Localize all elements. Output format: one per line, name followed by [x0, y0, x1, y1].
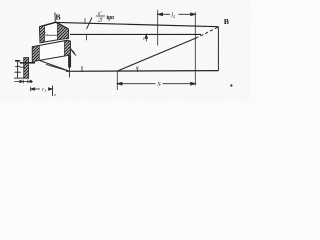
- leader line to slope formula: [87, 18, 93, 30]
- thin vertical hatched bar (lower left): [24, 58, 29, 79]
- extension line left of l2 / t: [157, 10, 159, 46]
- block 2 left hatched end: [32, 46, 39, 62]
- vertical line continuation: [69, 68, 71, 78]
- line B (horizontal reference line): [70, 33, 201, 35]
- stray dot: [230, 84, 232, 86]
- block 2 right hatched end: [65, 41, 71, 56]
- dimension r1 (bottom): [31, 87, 53, 92]
- base bottom line: [66, 70, 219, 73]
- tick below line B: [86, 34, 88, 40]
- r1 right extension line: [52, 86, 54, 97]
- block 1 left hatched end: [40, 26, 45, 43]
- dimension t arrow: [145, 34, 147, 41]
- scan noise: [0, 0, 1, 1]
- wedge hypotenuse dashed extension: [196, 27, 219, 38]
- S left extension line: [116, 71, 118, 90]
- wedge right edge: [217, 27, 219, 71]
- tick under r1: [45, 34, 57, 36]
- vertical band at x=69.5: [68, 56, 71, 68]
- dimension l2 line with arrows: [158, 13, 195, 16]
- small hatch marks below block 2 corner: [70, 48, 77, 56]
- base block thick top line: [20, 62, 35, 64]
- taper top line: [56, 22, 219, 26]
- block 1 right hatched end: [58, 23, 69, 40]
- left vertical dimension line: [14, 61, 25, 79]
- wedge hypotenuse solid: [117, 38, 195, 71]
- dimension S line with arrows: [118, 82, 196, 85]
- slope formula fraction s'/2l: [96, 11, 115, 23]
- block 1 (top wedge plate): [40, 22, 69, 43]
- small tick at x=82: [81, 66, 83, 72]
- bottom dimension of bar thickness: [14, 80, 33, 84]
- base wedge top face line: [40, 61, 69, 71]
- base wedge second line: [46, 64, 67, 70]
- block 1 top edge thick: [40, 22, 69, 29]
- extension line right of l2 and S: [194, 12, 196, 86]
- tick above taper line: [84, 18, 86, 24]
- block 2 (middle wedge plate): [32, 40, 70, 62]
- label B with leader bar (top left): [55, 12, 61, 21]
- alpha tick: [136, 69, 138, 72]
